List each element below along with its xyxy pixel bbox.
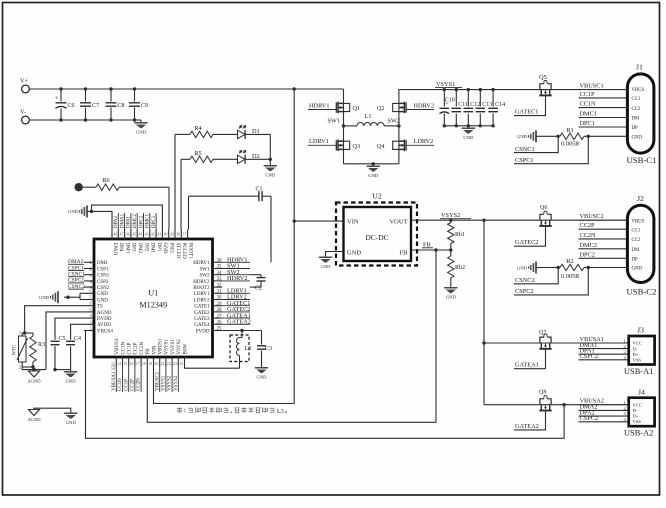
svg-text:DMC1: DMC1	[580, 111, 598, 118]
svg-text:TS: TS	[97, 305, 103, 310]
svg-text:CSNC2: CSNC2	[515, 277, 535, 284]
svg-text:GND: GND	[632, 267, 643, 272]
svg-text:C3: C3	[265, 346, 272, 352]
svg-text:C11: C11	[458, 102, 468, 108]
net FB wire	[411, 249, 451, 251]
svg-text:DP: DP	[632, 126, 638, 131]
svg-text:24: 24	[179, 362, 183, 366]
svg-text:CSP1: CSP1	[97, 267, 109, 272]
svg-text:30: 30	[217, 296, 223, 301]
capacitor C11	[455, 90, 457, 107]
wire V- rail	[29, 119, 141, 121]
svg-text:CC1N: CC1N	[121, 341, 126, 354]
ground at R1	[529, 130, 536, 142]
wire R5 to PGLED pin	[180, 159, 182, 229]
net VSYS1 rail	[399, 89, 628, 91]
svg-text:GND: GND	[347, 250, 361, 257]
capacitor C7	[85, 89, 87, 102]
svg-text:VSYS1: VSYS1	[162, 375, 167, 391]
svg-text:DP: DP	[632, 257, 638, 262]
svg-text:11: 11	[90, 320, 94, 324]
svg-text:CSPC2: CSPC2	[515, 288, 534, 295]
svg-text:GND: GND	[97, 292, 108, 297]
svg-text:10: 10	[90, 314, 94, 318]
svg-text:C13: C13	[482, 102, 492, 108]
svg-text:44: 44	[138, 233, 142, 237]
svg-text:GND: GND	[446, 294, 457, 299]
svg-text:GATEA1: GATEA1	[515, 362, 539, 369]
ground under C3	[255, 367, 268, 373]
svg-text:J1: J1	[636, 63, 643, 72]
svg-text:23: 23	[173, 362, 177, 366]
terminal V-	[22, 116, 30, 124]
svg-text:42: 42	[151, 233, 155, 237]
wire VIN net from V+	[293, 89, 295, 404]
wire C1 to BOOT1 pin	[188, 196, 190, 229]
capacitor C8	[110, 89, 112, 102]
svg-text:17: 17	[136, 362, 140, 366]
svg-text:U1: U1	[148, 289, 158, 298]
svg-text:GATEA2: GATEA2	[515, 423, 539, 430]
svg-text:FB: FB	[400, 250, 409, 257]
svg-text:CSN1: CSN1	[97, 274, 110, 279]
capacitor C4	[70, 336, 72, 340]
svg-text:GATE1: GATE1	[194, 305, 210, 310]
svg-text:C12: C12	[470, 102, 480, 108]
capacitor C12	[467, 90, 469, 107]
ground under Rb2	[444, 287, 457, 293]
wire PVDD row	[222, 330, 262, 332]
wire cap bank bottom	[444, 125, 493, 127]
svg-text:22: 22	[167, 362, 171, 366]
svg-text:D-: D-	[633, 408, 638, 413]
svg-text:48: 48	[113, 233, 117, 237]
svg-text:CSP2: CSP2	[97, 280, 109, 285]
U1 top net labels	[117, 213, 119, 230]
svg-text:VSYS2: VSYS2	[441, 212, 460, 219]
svg-text:VSYS1: VSYS1	[436, 81, 455, 88]
svg-text:CC1P: CC1P	[124, 379, 129, 391]
svg-text:V+: V+	[20, 78, 29, 85]
svg-text:V-: V-	[20, 109, 26, 116]
GATEC1 label wire	[514, 95, 546, 115]
capacitor C2 bootstrap	[250, 274, 261, 276]
svg-text:VIN: VIN	[347, 218, 359, 225]
svg-text:L1: L1	[365, 113, 372, 120]
svg-text:7: 7	[90, 296, 92, 300]
U1 bottom pins	[115, 357, 117, 367]
wire NTC R3 bottom to AGND	[22, 366, 33, 368]
wire U1 VIN pin route	[154, 367, 295, 404]
wire L3 bottom to BSW pin	[185, 367, 240, 369]
svg-text:43: 43	[145, 233, 149, 237]
svg-text:VBUSA1 13: VBUSA1 13	[112, 365, 117, 391]
svg-text:R6: R6	[102, 177, 109, 184]
svg-text:SW1: SW1	[200, 267, 211, 272]
svg-text:0.005R: 0.005R	[561, 141, 580, 148]
svg-text:CC1N: CC1N	[118, 378, 123, 391]
svg-text:CSN2: CSN2	[97, 286, 110, 291]
wire gnd to GND pin 9	[92, 205, 163, 229]
svg-text:VCC: VCC	[633, 341, 642, 346]
svg-text:AVDD: AVDD	[97, 323, 111, 328]
svg-text:16: 16	[130, 362, 134, 366]
GATEC2 label wire	[514, 226, 546, 246]
svg-text:GND: GND	[463, 135, 474, 140]
svg-text:Rb1: Rb1	[455, 232, 465, 238]
svg-text:Q3: Q3	[353, 143, 361, 150]
ground at R2	[529, 262, 536, 274]
svg-text:VOUT: VOUT	[389, 218, 407, 225]
svg-text:DP2: DP2	[143, 243, 148, 252]
svg-text:DPC1: DPC1	[152, 215, 157, 228]
svg-text:41: 41	[157, 233, 161, 237]
U2 ground	[326, 252, 344, 257]
analog ground AGND	[33, 370, 35, 371]
svg-text:0.005R: 0.005R	[561, 273, 580, 280]
resistor R1 0.005R shunt	[541, 135, 558, 137]
svg-text:25: 25	[217, 327, 223, 332]
svg-text:GATEC2: GATEC2	[515, 239, 538, 246]
svg-text:R4: R4	[194, 125, 202, 132]
net VSYS2 from VOUT	[411, 219, 627, 221]
svg-text:CC2N: CC2N	[137, 378, 142, 391]
svg-text:VSYS2: VSYS2	[177, 339, 182, 355]
ground bridge	[372, 164, 374, 166]
ground under C9	[135, 119, 142, 121]
svg-text:CC2P: CC2P	[580, 222, 596, 229]
svg-text:VSYS1: VSYS1	[171, 339, 176, 355]
svg-text:GND: GND	[632, 135, 643, 140]
svg-text:L3: L3	[245, 346, 252, 352]
svg-text:40: 40	[164, 233, 168, 237]
svg-text:CC2P: CC2P	[131, 379, 136, 391]
svg-text:VCC: VCC	[633, 402, 642, 407]
svg-text:U2: U2	[372, 192, 382, 201]
svg-text:DPC1: DPC1	[580, 120, 595, 127]
wire R6 to PSEL pin	[168, 187, 170, 229]
svg-text:DM: DM	[632, 248, 640, 253]
svg-text:DM1: DM1	[150, 243, 155, 254]
LED D2	[238, 150, 247, 164]
svg-text:R2: R2	[566, 258, 573, 265]
U1 top pins	[111, 230, 113, 240]
svg-text:GATEC1: GATEC1	[515, 109, 538, 116]
svg-text:VBUSC1: VBUSC1	[580, 83, 604, 90]
svg-text:M12349: M12349	[139, 301, 167, 310]
svg-text:DC-DC: DC-DC	[365, 233, 388, 242]
svg-text:VBUSC1: VBUSC1	[155, 371, 160, 391]
wire TS pin to NTC	[25, 306, 84, 333]
svg-text:SW2: SW2	[200, 274, 211, 279]
resistor R2 0.005R shunt	[541, 267, 558, 269]
svg-text:VBUSC2: VBUSC2	[580, 213, 604, 220]
svg-text:EPAD: EPAD	[112, 243, 117, 256]
svg-text:USB-C2: USB-C2	[627, 287, 657, 297]
svg-text:R1: R1	[566, 127, 573, 134]
svg-text:VBUS: VBUS	[632, 219, 645, 224]
svg-text:DP3: DP3	[131, 243, 136, 252]
svg-text:VIN: VIN	[152, 345, 157, 354]
svg-text:DPA2: DPA2	[114, 215, 119, 228]
ground for LEDs	[264, 165, 277, 171]
svg-text:SW2: SW2	[388, 118, 401, 125]
terminal V+	[22, 85, 30, 93]
svg-text:Q6: Q6	[540, 205, 547, 211]
svg-text:GND: GND	[68, 209, 79, 214]
feedback divider Rb1	[449, 219, 452, 222]
svg-text:AGND: AGND	[97, 311, 112, 316]
svg-text:GATE3: GATE3	[194, 317, 210, 322]
svg-text:GND: GND	[66, 420, 77, 425]
svg-text:46: 46	[126, 233, 130, 237]
wire GND pins 6,7 to ground	[80, 292, 84, 294]
AGND-GND tie	[34, 408, 71, 412]
svg-text:2: 2	[19, 365, 21, 370]
svg-text:21: 21	[161, 362, 165, 366]
ground cap bank	[467, 126, 469, 128]
wire R4 to STLED pin	[174, 134, 176, 229]
svg-text:NTC: NTC	[13, 344, 18, 355]
transistor Q2	[393, 102, 406, 114]
LED D1	[238, 125, 247, 139]
svg-text:DM3: DM3	[124, 243, 129, 254]
svg-text:C8: C8	[118, 103, 125, 109]
svg-text:27: 27	[217, 314, 223, 319]
svg-text:HDRV1: HDRV1	[309, 103, 330, 110]
svg-text:J4: J4	[638, 388, 645, 397]
svg-text:33: 33	[217, 277, 223, 282]
svg-text:34: 34	[217, 271, 223, 276]
svg-text:CSPC2: CSPC2	[580, 353, 599, 360]
capacitor C9	[134, 89, 136, 102]
capacitor C5	[54, 336, 56, 340]
svg-text:31: 31	[217, 290, 223, 295]
inductor L3 optional (dashed box)	[230, 335, 249, 362]
wire V+ rail	[29, 88, 343, 90]
svg-text:LDRV2: LDRV2	[414, 138, 434, 145]
svg-text:GATE2: GATE2	[194, 311, 210, 316]
svg-text:CC2: CC2	[632, 238, 641, 243]
svg-text:DPC2: DPC2	[139, 215, 144, 228]
svg-text:CC1P: CC1P	[128, 342, 133, 354]
svg-text:CC1: CC1	[632, 228, 641, 233]
svg-text:45: 45	[132, 233, 136, 237]
svg-text:DPC2: DPC2	[580, 251, 595, 258]
GATEA1 label wire	[514, 349, 546, 369]
svg-text:DMC1: DMC1	[146, 214, 151, 228]
resistor R3	[32, 333, 34, 336]
capacitor C3	[261, 331, 263, 345]
svg-text:GND: GND	[97, 298, 108, 303]
svg-text:CSPC2: CSPC2	[580, 415, 599, 422]
svg-text:CC1P: CC1P	[580, 91, 596, 98]
svg-text:1: 1	[19, 330, 21, 335]
svg-text:VBUS4: VBUS4	[97, 329, 113, 334]
wire AVDD pin to C4	[71, 324, 84, 336]
thermistor NTC	[19, 336, 27, 362]
svg-text:39: 39	[170, 233, 174, 237]
svg-text:VSS: VSS	[633, 358, 642, 363]
svg-text:AGND: AGND	[27, 379, 41, 384]
svg-text:Q7: Q7	[539, 330, 546, 336]
svg-text:C14: C14	[495, 102, 505, 108]
svg-text:HDRV2: HDRV2	[414, 103, 435, 110]
svg-text:CC2N: CC2N	[580, 232, 597, 239]
svg-text:C5: C5	[59, 336, 66, 342]
svg-text:Q2: Q2	[377, 105, 385, 112]
svg-text:DP4: DP4	[118, 243, 123, 252]
svg-text:CSNC1: CSNC1	[515, 146, 535, 153]
wire LED cathodes to ground	[269, 134, 271, 165]
svg-text:14: 14	[117, 362, 121, 366]
svg-text:DM2: DM2	[137, 243, 142, 254]
svg-text:FB: FB	[146, 348, 151, 355]
svg-text:VBUS1: VBUS1	[159, 338, 164, 354]
svg-text:LDRV2: LDRV2	[194, 298, 210, 303]
svg-text:CC2N: CC2N	[140, 341, 145, 354]
svg-text:VBUS3: VBUS3	[115, 338, 120, 354]
capacitor C10	[443, 90, 445, 107]
svg-text:12: 12	[90, 327, 94, 331]
svg-text:35: 35	[217, 265, 223, 270]
svg-text:BOOT2: BOOT2	[193, 286, 210, 291]
svg-text:PGLED: PGLED	[181, 243, 186, 260]
svg-text:DM4: DM4	[97, 261, 108, 266]
U1 right pins	[213, 261, 223, 263]
capacitor C14	[492, 90, 494, 107]
svg-text:J3: J3	[637, 326, 644, 335]
U1 bottom net labels	[115, 367, 117, 393]
svg-text:38: 38	[176, 233, 180, 237]
note text chinese (vector pseudo-glyphs)	[177, 407, 182, 413]
svg-text:8: 8	[90, 302, 92, 306]
svg-text:BOOT1: BOOT1	[187, 243, 192, 260]
U1 left pins	[84, 261, 94, 263]
svg-text:CC1: CC1	[632, 97, 641, 102]
svg-text:USB-C1: USB-C1	[627, 155, 657, 165]
svg-text:PVDD: PVDD	[196, 329, 210, 334]
svg-text:32: 32	[217, 283, 223, 288]
svg-text:Rb2: Rb2	[455, 265, 465, 271]
svg-text:USB-A2: USB-A2	[624, 429, 653, 438]
svg-text:GND: GND	[517, 265, 528, 270]
svg-text:J2: J2	[637, 194, 644, 203]
svg-text:Q5: Q5	[539, 74, 547, 81]
svg-text:R3: R3	[38, 342, 45, 348]
wire DVDD pin to C5	[55, 318, 84, 336]
svg-text:D-: D-	[633, 346, 638, 351]
svg-text:SW1: SW1	[327, 118, 340, 125]
svg-text:D+: D+	[633, 352, 639, 357]
wire gnd to EPAD pin	[92, 211, 113, 229]
svg-text:GND: GND	[39, 295, 50, 300]
wire Q2 branch vertical	[398, 89, 400, 164]
svg-text:15: 15	[123, 362, 127, 366]
wire NTC R3 top	[22, 332, 33, 334]
svg-text:C4: C4	[74, 336, 81, 342]
svg-text:LDRV1: LDRV1	[194, 292, 210, 297]
svg-text:VBUS: VBUS	[632, 88, 645, 93]
svg-text:AGND: AGND	[27, 417, 41, 422]
svg-text:GND: GND	[368, 173, 379, 178]
svg-text:CC1N: CC1N	[580, 101, 597, 108]
svg-text:DPA1: DPA1	[127, 215, 132, 228]
svg-text:VSYS2: VSYS2	[168, 375, 173, 391]
svg-text:Q1: Q1	[353, 105, 361, 112]
ground symbol at U1 top-left	[80, 205, 87, 217]
svg-text:19: 19	[148, 362, 152, 366]
svg-text:USB-A1: USB-A1	[624, 367, 653, 376]
U1 M12349 body	[94, 239, 213, 357]
svg-text:GND: GND	[265, 172, 276, 177]
resistor Rb2	[448, 256, 454, 278]
svg-text:R5: R5	[194, 150, 201, 157]
transistor Q4	[393, 140, 406, 152]
svg-text:GND: GND	[136, 129, 147, 134]
svg-text:Q8: Q8	[539, 390, 546, 396]
svg-text:DMC2: DMC2	[580, 242, 598, 249]
GATEA2 label wire	[514, 411, 546, 430]
svg-text:9: 9	[90, 308, 92, 312]
svg-text:CSPC1: CSPC1	[515, 157, 534, 164]
svg-text:26: 26	[217, 321, 223, 326]
svg-text:DVDD: DVDD	[97, 317, 112, 322]
capacitor C13	[479, 90, 481, 107]
capacitor C6	[60, 89, 62, 102]
svg-text:C9: C9	[141, 103, 148, 109]
svg-text:C10: C10	[445, 98, 455, 104]
svg-text:DP1: DP1	[156, 243, 161, 252]
svg-text:20: 20	[154, 362, 158, 366]
svg-text:VSYS2: VSYS2	[174, 375, 179, 391]
transistor Q1	[336, 102, 349, 114]
svg-text:GND: GND	[162, 243, 167, 254]
svg-text:DMC2: DMC2	[133, 214, 138, 228]
svg-text:GATE4: GATE4	[194, 323, 210, 328]
transistor Q3	[336, 140, 349, 152]
svg-text:47: 47	[120, 233, 124, 237]
svg-text:PSEL: PSEL	[169, 243, 174, 255]
svg-text:GND: GND	[517, 134, 528, 139]
svg-text:STLED: STLED	[175, 243, 180, 259]
svg-text:37: 37	[183, 233, 187, 237]
svg-text:CC2P: CC2P	[134, 342, 139, 354]
svg-text:HDRV2: HDRV2	[193, 280, 210, 285]
svg-text:28: 28	[217, 308, 223, 313]
svg-text:GND: GND	[257, 374, 268, 379]
wire C1 to HDRV1 row	[270, 196, 272, 262]
svg-text:C2: C2	[255, 286, 262, 292]
svg-text:VSS: VSS	[633, 419, 642, 424]
svg-text:Q4: Q4	[377, 143, 386, 150]
svg-text:C7: C7	[92, 103, 99, 109]
svg-text:VSYS1: VSYS1	[165, 339, 170, 355]
wire AGND pin down	[46, 312, 84, 370]
wire VBUS4 pin down (long route to Q8)	[84, 331, 564, 439]
svg-text:36: 36	[217, 259, 223, 264]
svg-text:C6: C6	[68, 103, 75, 109]
svg-text:L3: L3	[277, 408, 284, 415]
svg-text:CC2: CC2	[632, 107, 641, 112]
wire Q1 branch vertical	[343, 89, 345, 164]
svg-text:GND: GND	[321, 264, 332, 269]
svg-text:GND: GND	[66, 378, 77, 383]
svg-text:LDRV1: LDRV1	[309, 138, 329, 145]
ground under C4	[70, 370, 72, 371]
svg-text:DM: DM	[632, 117, 640, 122]
wire C5 C4 bottoms	[55, 369, 71, 371]
